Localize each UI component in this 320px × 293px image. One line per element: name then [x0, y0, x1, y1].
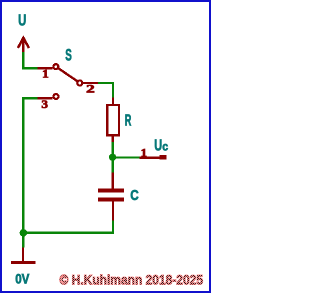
wire junction to Uc pin: [113, 156, 140, 158]
resistor R body: [107, 105, 119, 135]
switch S pin 1 lead: [38, 67, 53, 69]
border frame: [1, 1, 210, 292]
switch contact circle 3: [52, 93, 59, 100]
capacitor C bottom lead: [112, 201, 114, 220]
switch pin 3 lead: [38, 97, 53, 99]
0V terminal lead: [22, 247, 24, 261]
svg-text:0V: 0V: [15, 272, 29, 287]
svg-text:U: U: [154, 138, 162, 155]
capacitor C top lead: [112, 172, 114, 189]
wire capacitor to bottom rail: [23, 221, 113, 233]
switch lever: [59, 69, 77, 81]
svg-text:3: 3: [41, 97, 48, 111]
switch contact circle 1: [52, 63, 59, 70]
wire from switch pin 2 to resistor: [98, 83, 113, 98]
junction node dot bottom: [20, 229, 28, 237]
0V terminal bar: [11, 261, 35, 264]
wire resistor to junction and capacitor: [112, 142, 114, 172]
svg-text:S: S: [65, 46, 72, 64]
wire to switch pin 3: [22, 97, 38, 99]
svg-text:U: U: [18, 13, 26, 30]
switch contact circle 2: [76, 79, 83, 86]
capacitor C top plate: [98, 189, 124, 193]
svg-text:© H.Kuhlmann 2018-2025: © H.Kuhlmann 2018-2025: [60, 273, 204, 288]
svg-text:C: C: [130, 187, 139, 204]
capacitor C bottom plate: [98, 198, 124, 202]
wire from arrow to switch pin 1: [23, 52, 38, 68]
resistor R top lead: [112, 97, 114, 104]
resistor R bottom lead: [112, 136, 114, 142]
svg-text:R: R: [125, 113, 132, 130]
junction node dot: [109, 154, 116, 161]
voltage source arrow U: [18, 37, 29, 52]
svg-text:c: c: [162, 142, 168, 154]
output pin Uc: [139, 156, 159, 158]
left rail wire: [22, 98, 24, 247]
switch pin 2 lead: [83, 82, 98, 84]
svg-text:1: 1: [42, 67, 49, 81]
